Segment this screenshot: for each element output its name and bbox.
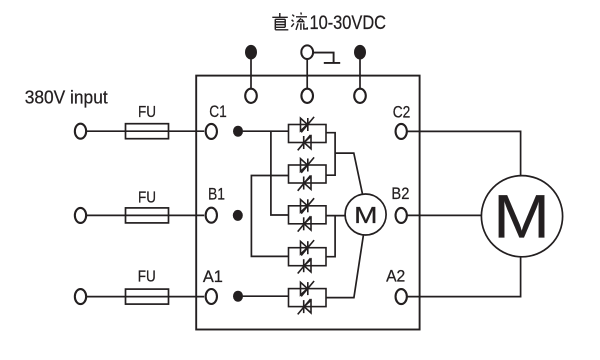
fuse FU (B phase)	[126, 208, 169, 223]
input terminal A phase	[75, 289, 86, 304]
node B1 junction dot	[233, 210, 243, 221]
svg-text:M: M	[354, 203, 377, 228]
terminal C1	[206, 124, 217, 139]
terminal A1	[206, 289, 217, 304]
svg-text:A2: A2	[386, 266, 405, 285]
control input circle 3 on module	[354, 89, 366, 103]
node A1 junction dot	[233, 291, 243, 302]
svg-text:B1: B1	[208, 185, 225, 204]
svg-text:M: M	[493, 182, 550, 251]
wire	[250, 59, 252, 88]
wire	[87, 296, 204, 298]
terminal C2	[396, 124, 407, 139]
control input circle 2 on module	[301, 89, 313, 103]
motor M (internal)	[345, 194, 386, 235]
wire SCR3 output to motor left	[326, 215, 345, 217]
wire	[306, 59, 308, 88]
wire	[359, 59, 361, 88]
svg-text:10-30VDC: 10-30VDC	[310, 13, 387, 34]
wire C2 to motor top	[407, 131, 521, 175]
svg-text:380V input: 380V input	[25, 86, 108, 107]
terminal B1	[206, 208, 217, 223]
control input circle 1 on module	[245, 89, 257, 103]
wire	[87, 214, 204, 216]
main module box	[196, 76, 419, 330]
top control terminal dot + (positive)	[245, 45, 257, 60]
wire	[243, 295, 289, 297]
wire SCR1 SCR2 outputs joined	[326, 133, 335, 176]
fuse FU (C phase)	[126, 124, 169, 139]
wire junction to motor top	[335, 153, 363, 195]
wire	[87, 130, 204, 132]
wire B2 to motor left	[407, 214, 482, 216]
top control terminal dot - (negative)	[354, 45, 366, 60]
terminal B2	[396, 208, 407, 223]
svg-text:FU: FU	[138, 190, 156, 207]
wire SCR4 output joined to SCR3	[326, 216, 335, 257]
control switch symbol	[313, 53, 340, 63]
svg-text:C2: C2	[393, 102, 411, 121]
SCR pair module 3 (C phase crossover)	[289, 206, 327, 224]
wire bus C1 to SCR3	[271, 131, 289, 215]
SCR pair module 5 (A phase)	[289, 289, 327, 307]
fuse FU (A phase)	[126, 289, 169, 304]
SCR pair module 2 (B phase crossover)	[289, 165, 327, 183]
terminal A2	[396, 289, 407, 304]
input terminal B phase	[75, 208, 86, 223]
svg-text:C1: C1	[209, 102, 227, 121]
SCR pair module 1 (C phase forward)	[289, 125, 327, 143]
motor M (external 3-phase)	[481, 176, 562, 257]
node C1 junction dot	[233, 126, 243, 137]
wire A2 to motor bottom	[407, 257, 521, 297]
input terminal C phase	[75, 124, 86, 139]
svg-text:FU: FU	[138, 104, 156, 121]
svg-text:FU: FU	[138, 269, 156, 286]
wire	[243, 130, 289, 132]
svg-text:A1: A1	[203, 267, 223, 286]
wire bus B to SCR2 and SCR4	[251, 176, 288, 257]
svg-text:B2: B2	[391, 184, 409, 203]
top control terminal circle (signal)	[301, 45, 313, 59]
SCR pair module 4 (B phase forward)	[289, 248, 327, 266]
title DC supply label 直流 (hand-drawn glyphs)	[272, 12, 307, 30]
wire SCR5 output to motor bottom	[326, 235, 363, 298]
